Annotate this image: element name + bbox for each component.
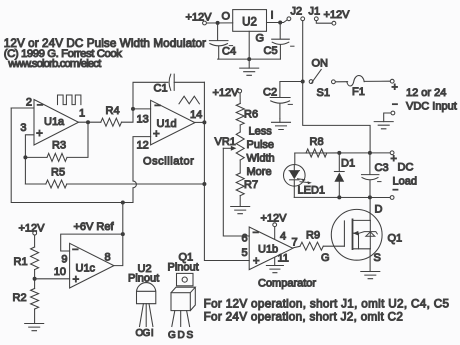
- svg-text:G: G: [168, 330, 176, 341]
- svg-text:11: 11: [278, 253, 289, 265]
- resistor R9 label: [306, 229, 320, 241]
- U2 pinout label: [128, 263, 159, 285]
- switch S1 arm: [312, 70, 321, 83]
- Q1 pinout legs: [172, 311, 190, 327]
- wire +12V R1 label: [19, 223, 46, 235]
- resistor R6: [236, 104, 244, 125]
- svg-text:C3: C3: [375, 162, 389, 174]
- op-amp U1a: [34, 100, 79, 146]
- capacitor C5: [249, 23, 289, 60]
- capacitor C4: [209, 23, 249, 59]
- node C5 top: [278, 21, 282, 25]
- resistor R3 label: [52, 140, 66, 152]
- svg-text:+12V: +12V: [186, 12, 213, 24]
- svg-text:+: +: [36, 128, 43, 140]
- svg-text:+12V: +12V: [19, 223, 46, 235]
- wire U1d output: [195, 121, 205, 123]
- 12 or 24 label: [406, 87, 446, 99]
- +12V R1 terminal: [33, 231, 37, 235]
- pin 13 label: [137, 114, 149, 126]
- resistor R5 label: [51, 166, 65, 178]
- wire LED1 bottom: [293, 186, 295, 197]
- Width label: [247, 153, 275, 165]
- resistor R8 label: [310, 136, 324, 148]
- wire drain: [369, 197, 371, 220]
- MOSFET Q1 channel bar: [352, 219, 354, 249]
- svg-text:−: −: [37, 100, 43, 112]
- wire - input to ground: [384, 113, 391, 122]
- svg-text:D1: D1: [341, 158, 355, 170]
- +12V supply label: [186, 12, 213, 24]
- resistor R1 label: [14, 256, 28, 268]
- node C4 top: [216, 21, 220, 25]
- MOSFET Q1 gate bar: [343, 221, 345, 246]
- wire C1 left: [133, 82, 168, 109]
- pin G label: [256, 33, 265, 45]
- svg-text:O: O: [222, 11, 231, 23]
- resistor R4 label: [106, 105, 120, 117]
- resistor R7 label: [244, 179, 258, 191]
- pin 11 label: [278, 253, 289, 265]
- op-amp U1d: [151, 100, 195, 145]
- regulator U2 box: [233, 10, 267, 32]
- svg-text:For 24V operation, short J2, o: For 24V operation, short J2, omit C2: [204, 311, 404, 324]
- svg-text:R8: R8: [310, 136, 324, 148]
- svg-text:VR1: VR1: [215, 136, 236, 148]
- +12V U1b label: [261, 213, 288, 225]
- wire R9 to gate: [323, 245, 344, 247]
- wire R3 left: [25, 156, 47, 158]
- svg-text:+: +: [392, 82, 398, 94]
- node C3 top: [368, 151, 372, 155]
- +12V node label: [324, 9, 351, 21]
- +12V supply terminal: [203, 21, 207, 25]
- ground Q1 source: [361, 272, 380, 279]
- switch S1 label: [317, 87, 330, 99]
- node R1 R2 junction: [33, 277, 37, 281]
- pin 12 label: [137, 140, 149, 152]
- MOSFET Q1 substrate arrow: [353, 231, 359, 249]
- svg-text:VDC Input: VDC Input: [406, 101, 457, 113]
- resistor R8: [306, 149, 327, 157]
- svg-text:R1: R1: [14, 256, 28, 268]
- node D1 top: [337, 151, 341, 155]
- oscillator label: [143, 156, 194, 168]
- node switch tap: [301, 80, 305, 84]
- svg-text:J2: J2: [291, 6, 303, 18]
- svg-text:C1: C1: [154, 83, 168, 95]
- node R5 feedback: [202, 182, 206, 186]
- svg-text:S: S: [187, 330, 194, 341]
- svg-text:G: G: [256, 33, 265, 45]
- svg-text:More: More: [247, 166, 272, 178]
- wire source to ground: [369, 249, 371, 272]
- minus sign DC load: [393, 185, 399, 196]
- svg-text:−: −: [252, 227, 258, 239]
- svg-text:R3: R3: [52, 140, 66, 152]
- wire hop over R5 feedback: [133, 181, 136, 203]
- wire F1 to + input: [364, 80, 390, 82]
- wire C2 top: [280, 82, 303, 98]
- svg-text:+: +: [73, 274, 80, 286]
- jumper J2 pin B: [301, 17, 305, 21]
- wire S1 to F1: [336, 81, 348, 83]
- svg-text:U1b: U1b: [258, 244, 278, 256]
- svg-text:+: +: [253, 256, 260, 268]
- svg-text:I: I: [151, 328, 154, 339]
- fuse F1: [347, 76, 364, 86]
- svg-text:U1d: U1d: [157, 118, 177, 130]
- svg-text:F1: F1: [352, 86, 365, 98]
- op-amp U1b: [249, 227, 293, 270]
- pin 6 label: [242, 233, 248, 245]
- Q1 pinout label: [168, 252, 199, 274]
- wire main V+ rail: [303, 21, 370, 153]
- title text line 2: [4, 48, 122, 60]
- node U1d output: [202, 120, 206, 124]
- wire R1 to R2: [34, 270, 36, 289]
- svg-text:−: −: [154, 100, 160, 112]
- wire R1 top: [34, 235, 36, 247]
- svg-text:U1a: U1a: [44, 116, 65, 128]
- pin 7 label: [292, 237, 298, 249]
- svg-text:C2: C2: [263, 87, 277, 99]
- potentiometer VR1: [236, 132, 244, 160]
- svg-text:13: 13: [137, 114, 149, 126]
- U2 pinout pins label: [136, 328, 154, 339]
- svg-text:LED1: LED1: [298, 185, 326, 197]
- svg-text:14: 14: [190, 109, 202, 121]
- svg-text:C4: C4: [222, 46, 236, 58]
- svg-text:9: 9: [61, 254, 67, 266]
- U2 pinout legs: [140, 304, 153, 327]
- resistor R2: [31, 289, 39, 310]
- ground U1b: [266, 266, 283, 273]
- wire R8 left: [295, 153, 306, 165]
- svg-text:J1: J1: [309, 6, 321, 18]
- MOSFET Q1 label: [388, 233, 403, 245]
- square wave symbol: [58, 95, 81, 105]
- MOSFET Q1 body diode: [359, 220, 378, 248]
- svg-text:10: 10: [54, 266, 66, 278]
- ground R7: [231, 196, 250, 214]
- svg-text:Oscillator: Oscillator: [143, 156, 194, 168]
- pin O label: [222, 11, 231, 23]
- svg-text:+12V: +12V: [324, 9, 351, 21]
- capacitor C5 label: [264, 45, 278, 57]
- svg-text:DC: DC: [398, 162, 414, 174]
- wire VR1 wiper to pin 6: [223, 148, 249, 236]
- node R3 left: [23, 155, 27, 159]
- resistor R4: [101, 118, 122, 126]
- MOSFET Q1 source stub: [353, 248, 371, 250]
- wire divider to pin 10: [35, 278, 70, 280]
- wire U2 ground pin: [248, 31, 250, 59]
- svg-text:4: 4: [280, 231, 286, 243]
- svg-text:2: 2: [26, 97, 32, 109]
- capacitor C1 label: [154, 83, 168, 95]
- wire +DC rail: [295, 152, 390, 154]
- svg-text:Width: Width: [247, 153, 275, 165]
- + VDC input terminal: [390, 79, 394, 83]
- svg-text:Pinout: Pinout: [168, 262, 199, 274]
- wire pin 11 ground: [274, 258, 276, 266]
- svg-text:R5: R5: [51, 166, 65, 178]
- svg-text:R2: R2: [13, 292, 27, 304]
- LED1 emission arrows: [298, 179, 312, 185]
- svg-text:U1c: U1c: [76, 263, 96, 275]
- ground R2: [25, 309, 44, 331]
- wire R8 right: [327, 152, 340, 154]
- Less label: [249, 126, 273, 138]
- node +6V ref tap: [121, 201, 125, 205]
- svg-text:−: −: [72, 244, 78, 256]
- title text line 3: [7, 58, 102, 70]
- More label: [247, 166, 272, 178]
- wire oscillator output bus: [204, 82, 249, 260]
- +12V oscillator terminal: [238, 89, 242, 93]
- svg-text:Comparator: Comparator: [258, 278, 316, 290]
- pin 3 label: [20, 122, 26, 134]
- wire U1a output: [79, 121, 101, 123]
- wire U2 output: [207, 22, 233, 24]
- capacitor C3: [362, 153, 382, 198]
- resistor R5: [46, 180, 67, 188]
- pin 1 label: [79, 108, 85, 120]
- svg-text:C5: C5: [264, 45, 278, 57]
- drain label D: [375, 204, 383, 216]
- wire U2 input: [267, 20, 288, 23]
- capacitor C2 label: [263, 87, 277, 99]
- wire R6 to VR1: [239, 125, 241, 132]
- svg-text:+: +: [391, 153, 397, 165]
- diode D1: [334, 153, 344, 198]
- svg-text:12 or 24: 12 or 24: [406, 87, 446, 99]
- pin 2 label: [26, 97, 32, 109]
- svg-text:S1: S1: [317, 87, 330, 99]
- svg-text:For 12V operation, short J1, o: For 12V operation, short J1, omit U2, C4…: [204, 298, 450, 311]
- resistor R1: [31, 247, 39, 270]
- svg-text:www.solorb.com/elect: www.solorb.com/elect: [7, 58, 102, 70]
- node C3 bottom: [368, 195, 372, 199]
- gate label G: [321, 252, 330, 264]
- Q1 pinout pins label: [168, 330, 194, 341]
- svg-text:3: 3: [20, 122, 26, 134]
- pin 12 wire: [133, 137, 151, 181]
- svg-text:R9: R9: [306, 229, 320, 241]
- C4 polarity mark: [229, 45, 232, 47]
- wire C1 right: [174, 81, 204, 83]
- VDC Input label: [406, 101, 457, 113]
- svg-text:5: 5: [242, 247, 248, 259]
- svg-text:I: I: [271, 10, 274, 22]
- Load label: [393, 176, 417, 188]
- MOSFET Q1 drain stub: [353, 219, 371, 221]
- wire pin 9 feedback: [61, 234, 123, 251]
- svg-text:D: D: [178, 330, 185, 341]
- source label S: [374, 252, 381, 264]
- svg-text:G: G: [143, 328, 151, 339]
- ON label: [312, 58, 329, 70]
- wire pin2 feedback loop: [11, 108, 133, 203]
- op-amp U1c: [70, 243, 114, 288]
- ground VDC input: [374, 122, 393, 129]
- svg-text:+: +: [153, 129, 160, 141]
- Pulse label: [247, 139, 275, 151]
- wire R5 left: [25, 183, 45, 185]
- MOSFET Q1 body circle: [331, 209, 382, 260]
- +12V oscillator label: [213, 87, 240, 99]
- svg-text:R4: R4: [106, 105, 120, 117]
- wire J1 to +12V: [316, 21, 332, 23]
- svg-text:D: D: [375, 204, 383, 216]
- wire U1c output: [114, 203, 123, 266]
- svg-text:+6V Ref: +6V Ref: [74, 221, 115, 233]
- - VDC input terminal: [391, 111, 395, 115]
- +12V node terminal: [332, 21, 336, 25]
- wire VR1 to R7: [239, 160, 241, 173]
- jumper J1 pin B: [314, 17, 318, 21]
- plus sign VDC input: [392, 82, 398, 94]
- pin 10 label: [54, 266, 66, 278]
- wire R5 feedback to U1d output: [67, 183, 205, 185]
- resistor R3: [47, 153, 67, 161]
- resistor R9: [300, 242, 323, 250]
- svg-text:S: S: [374, 252, 381, 264]
- resistor R2 label: [13, 292, 27, 304]
- resistor R7: [236, 173, 244, 196]
- pin 3 wire: [25, 135, 34, 184]
- jumper J2 label: [291, 6, 303, 18]
- wire +12V to pin 4: [274, 227, 276, 239]
- Q1 pinout tab: [177, 273, 194, 285]
- capacitor C3 label: [375, 162, 389, 174]
- wire R3 right: [67, 122, 88, 157]
- VR1 wiper arrow: [223, 146, 236, 151]
- svg-text:R7: R7: [244, 179, 258, 191]
- svg-text:−: −: [392, 100, 398, 111]
- LED1 circle: [284, 165, 306, 187]
- Q1 pinout package: [171, 287, 195, 310]
- svg-text:−: −: [393, 185, 399, 196]
- jumper J2 pin A: [287, 17, 291, 21]
- pin 14 label: [190, 109, 202, 121]
- resistor R6 label: [244, 108, 258, 120]
- fuse F1 label: [352, 86, 365, 98]
- minus sign VDC input: [392, 100, 398, 111]
- capacitor C2: [270, 98, 292, 119]
- pin 2 wire: [11, 107, 34, 109]
- C5 polarity mark: [291, 45, 294, 47]
- svg-text:G: G: [321, 252, 330, 264]
- +DC load terminal: [390, 151, 394, 155]
- node D1 bottom: [337, 195, 341, 199]
- pin 5 label: [242, 247, 248, 259]
- ground C2: [272, 119, 291, 130]
- node +6V ref join: [121, 232, 125, 236]
- note line 1: [204, 298, 450, 311]
- LED1 diode: [289, 165, 299, 187]
- pin 9 label: [61, 254, 67, 266]
- svg-text:R6: R6: [244, 108, 258, 120]
- pin 4 label: [280, 231, 286, 243]
- potentiometer VR1 label: [215, 136, 236, 148]
- switch S1 pole: [309, 80, 313, 84]
- switch S1 throw: [332, 80, 336, 84]
- wire -DC rail: [294, 196, 390, 198]
- wire U1b output: [293, 246, 300, 248]
- title text line 1: [4, 37, 206, 50]
- wire C5 to J2: [286, 19, 288, 21]
- svg-text:12: 12: [137, 140, 149, 152]
- pin I label: [271, 10, 274, 22]
- diode D1 label: [341, 158, 355, 170]
- note line 2: [204, 311, 404, 324]
- comparator label: [258, 278, 316, 290]
- ground U2: [240, 59, 259, 75]
- DC label: [398, 162, 414, 174]
- node U2 ground: [247, 57, 251, 61]
- plus sign DC load: [391, 153, 397, 165]
- svg-text:ON: ON: [312, 58, 329, 70]
- jumper J1 label: [309, 6, 321, 18]
- wire R4 to pin 13: [122, 109, 151, 122]
- +6V Ref label: [74, 221, 115, 233]
- svg-text:U2: U2: [242, 17, 257, 29]
- svg-text:Pulse: Pulse: [247, 139, 275, 151]
- pin 8 label: [105, 252, 111, 264]
- -DC load terminal: [390, 196, 394, 200]
- svg-text:+12V: +12V: [213, 87, 240, 99]
- U2 pinout package: [137, 283, 156, 304]
- node pin 13: [131, 107, 135, 111]
- LED1 label: [298, 185, 326, 197]
- wire +12V to R6: [239, 93, 241, 103]
- svg-text:Less: Less: [249, 126, 273, 138]
- svg-text:1: 1: [79, 108, 85, 120]
- svg-text:8: 8: [105, 252, 111, 264]
- node U1a output: [86, 120, 90, 124]
- svg-text:6: 6: [242, 233, 248, 245]
- capacitor C1: [169, 74, 174, 90]
- svg-text:Q1: Q1: [388, 233, 403, 245]
- capacitor C4 label: [222, 46, 236, 58]
- +12V U1b terminal: [273, 223, 277, 227]
- sawtooth symbol: [179, 96, 199, 104]
